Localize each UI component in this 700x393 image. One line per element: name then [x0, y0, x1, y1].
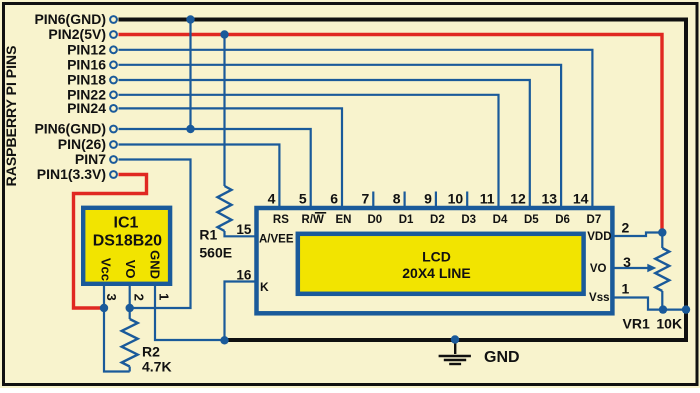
- wire: 3.3V red from PIN1(3.3V) to IC1 pin3: [74, 175, 147, 309]
- wire: LCD D3 stub (pin10): [466, 192, 468, 209]
- svg-text:9: 9: [424, 190, 432, 206]
- svg-text:VO: VO: [590, 263, 607, 275]
- wire: PIN6(GND) row2 to LCD R/W (pin5): [119, 129, 311, 208]
- svg-text:D3: D3: [461, 214, 476, 226]
- svg-text:16: 16: [236, 267, 252, 282]
- wire: PIN12 to LCD D7 (pin14): [119, 50, 593, 208]
- wire: R2 bottom stub: [129, 367, 131, 372]
- svg-text:VR1: VR1: [623, 316, 650, 332]
- svg-text:15: 15: [236, 222, 252, 237]
- svg-text:2: 2: [132, 294, 147, 301]
- svg-text:7: 7: [362, 190, 370, 206]
- svg-text:1: 1: [622, 281, 630, 297]
- svg-text:D1: D1: [399, 214, 414, 226]
- svg-text:DS18B20: DS18B20: [93, 233, 162, 250]
- svg-text:GND: GND: [484, 349, 520, 366]
- junction: IC1 pin2 / PIN7 data / R2: [126, 304, 134, 312]
- wire: LCD D2 stub (pin9): [435, 192, 437, 209]
- IC U: IC1 DS18B20: [83, 208, 170, 284]
- svg-text:1: 1: [157, 293, 172, 300]
- wire: VR1 top lead: [661, 233, 663, 249]
- svg-text:RS: RS: [273, 214, 289, 226]
- wire: 5V red from PIN2(5V) to VR1 top: [119, 35, 663, 233]
- resistor R2 4.7K body: [122, 319, 138, 367]
- svg-text:PIN2(5V): PIN2(5V): [48, 26, 106, 42]
- svg-text:GND: GND: [148, 250, 163, 279]
- svg-text:PIN7: PIN7: [75, 151, 106, 167]
- junction: GND bus / GND dropper: [186, 15, 194, 23]
- potentiometer VR1 10K body: [655, 248, 669, 291]
- svg-text:5: 5: [299, 190, 307, 206]
- terminal PIN1(3.3V): [110, 171, 117, 178]
- svg-text:RASPBERRY PI PINS: RASPBERRY PI PINS: [3, 46, 19, 187]
- resistor R1 560E body: [218, 186, 232, 231]
- terminal PIN6(GND): [110, 126, 117, 133]
- wire: PIN16 to LCD D6 (pin13): [119, 65, 562, 208]
- svg-text:PIN1(3.3V): PIN1(3.3V): [37, 166, 106, 182]
- junction: GND bus / ground symbol: [451, 335, 459, 343]
- wire: PIN(26) to LCD RS (pin4): [119, 145, 280, 209]
- wire: R1 bottom to LCD A/VEE (pin15): [225, 231, 255, 236]
- svg-text:12: 12: [510, 190, 526, 206]
- junction: 5V / VDD / VR1 top: [658, 228, 666, 236]
- wire: LCD D0 stub (pin7): [372, 192, 374, 209]
- wire: IC1 pin3 drop to R2 bottom: [104, 286, 130, 372]
- terminal PIN6(GND): [110, 16, 117, 23]
- wire: LCD Vss (pin1) to GND: [615, 298, 687, 310]
- svg-text:3: 3: [104, 293, 119, 300]
- terminal PIN12: [110, 46, 117, 53]
- svg-text:VO: VO: [123, 260, 138, 279]
- svg-text:8: 8: [393, 190, 401, 206]
- svg-text:R1: R1: [199, 227, 217, 243]
- svg-text:PIN12: PIN12: [67, 42, 106, 58]
- svg-text:560E: 560E: [199, 245, 232, 261]
- svg-text:PIN(26): PIN(26): [58, 136, 106, 152]
- svg-text:R/W: R/W: [302, 214, 325, 226]
- svg-text:A/VEE: A/VEE: [259, 233, 294, 245]
- wire: GND dropper top: [189, 20, 191, 130]
- wire: PIN24 to LCD EN (pin6): [119, 108, 343, 208]
- terminal PIN7: [110, 156, 117, 163]
- svg-text:6: 6: [330, 190, 338, 206]
- svg-text:D0: D0: [367, 214, 382, 226]
- wire: GND bus from PIN6(GND) across top, down right side, along bottom: [119, 20, 687, 341]
- svg-text:PIN6(GND): PIN6(GND): [34, 11, 106, 27]
- svg-text:10K: 10K: [656, 316, 682, 332]
- junction: GND bus / IC1 pin1 / LCD K: [220, 336, 228, 344]
- wire: IC1 pin2 stub: [129, 286, 131, 319]
- junction: Vss wire / GND right wire: [682, 305, 690, 313]
- svg-text:PIN24: PIN24: [67, 100, 106, 116]
- LCD module box: [257, 208, 613, 313]
- junction: VR1 bottom / Vss: [659, 305, 667, 313]
- wire: LCD VO (pin3) to VR1 wiper: [615, 267, 650, 269]
- VR1 wiper arrowhead: [647, 264, 656, 272]
- svg-text:D2: D2: [430, 214, 445, 226]
- svg-text:13: 13: [542, 190, 558, 206]
- wire: VR1 bottom lead: [661, 291, 663, 310]
- junction: PIN6(GND) row2 / GND dropper: [186, 125, 194, 133]
- svg-text:VDD: VDD: [587, 231, 611, 243]
- terminal PIN(26): [110, 141, 117, 148]
- svg-text:20X4 LINE: 20X4 LINE: [402, 265, 470, 281]
- junction: 5V / R1: [220, 30, 228, 38]
- wire: LCD D1 stub (pin8): [404, 192, 406, 209]
- svg-text:PIN16: PIN16: [67, 57, 106, 73]
- svg-text:Vss: Vss: [589, 292, 609, 304]
- wire: PIN7 to IC1 VO (data): [119, 160, 191, 309]
- wire: PIN22 to LCD D4 (pin11): [119, 95, 499, 208]
- svg-text:K: K: [260, 280, 269, 294]
- svg-text:IC1: IC1: [114, 215, 139, 232]
- svg-text:14: 14: [573, 190, 589, 206]
- terminal PIN22: [110, 91, 117, 98]
- svg-text:4: 4: [268, 190, 276, 206]
- wire: LCD VDD (pin2) to 5V node: [615, 233, 663, 237]
- junction: 3.3V / IC1 pin3: [100, 304, 108, 312]
- svg-text:3: 3: [623, 254, 631, 270]
- svg-text:D6: D6: [555, 214, 570, 226]
- svg-text:10: 10: [448, 190, 464, 206]
- svg-text:PIN18: PIN18: [67, 72, 106, 88]
- terminal PIN16: [110, 61, 117, 68]
- svg-text:EN: EN: [336, 214, 352, 226]
- wire: LCD K (pin16) to GND bus: [225, 282, 255, 341]
- ground symbol: [439, 340, 471, 364]
- svg-text:Vcc: Vcc: [99, 258, 114, 281]
- svg-text:D7: D7: [587, 214, 602, 226]
- svg-text:LCD: LCD: [422, 249, 451, 265]
- svg-text:11: 11: [480, 190, 495, 206]
- svg-text:D4: D4: [493, 214, 508, 226]
- svg-text:PIN6(GND): PIN6(GND): [34, 121, 106, 137]
- wire: PIN18 to LCD D5 (pin12): [119, 80, 530, 208]
- svg-text:R2: R2: [142, 344, 160, 360]
- LCD screen: [298, 234, 584, 294]
- wire: IC1 pin1 to GND bus: [155, 286, 225, 340]
- svg-text:4.7K: 4.7K: [142, 359, 172, 375]
- terminal PIN2(5V): [110, 31, 117, 38]
- svg-text:2: 2: [622, 219, 630, 235]
- terminal PIN18: [110, 77, 117, 84]
- terminal PIN24: [110, 105, 117, 112]
- wire: 5V dropper to R1: [223, 35, 225, 187]
- svg-text:D5: D5: [524, 214, 539, 226]
